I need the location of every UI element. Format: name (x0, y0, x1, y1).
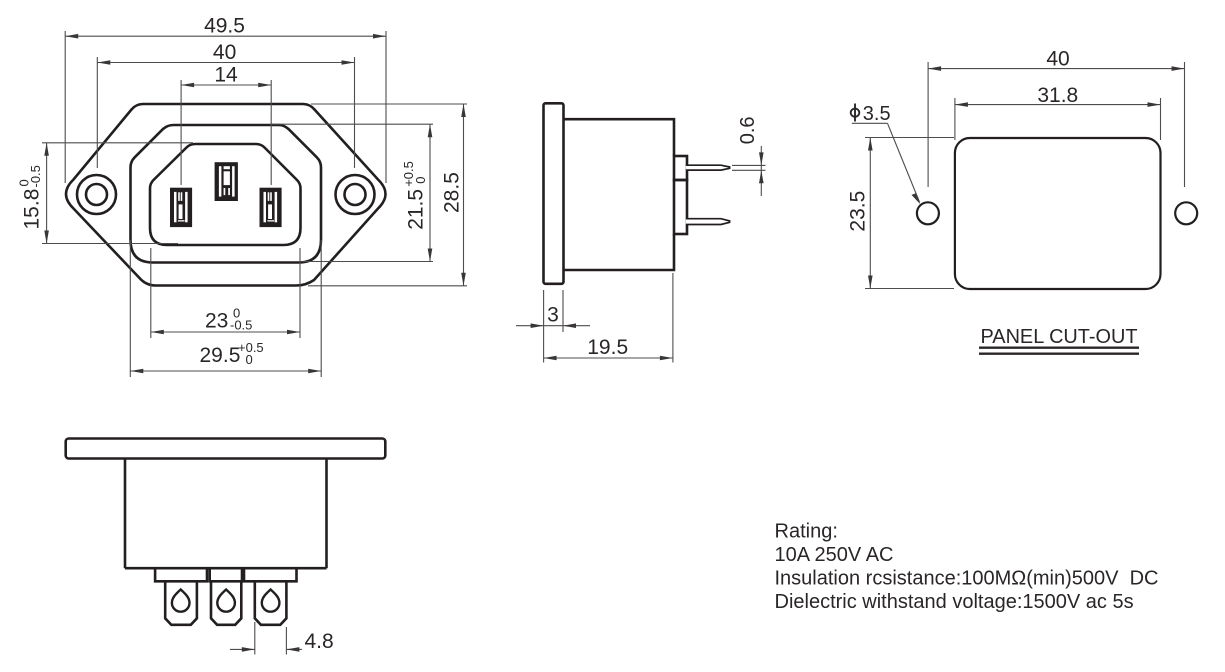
bottom pin left (165, 581, 197, 625)
dim 23 lines (150, 248, 152, 338)
arrows 23 (151, 330, 164, 335)
dim 21.5 lines (270, 123, 433, 125)
label 0.6 (737, 116, 759, 144)
svg-text:28.5: 28.5 (441, 172, 464, 213)
front socket opening outline (150, 144, 301, 245)
arrows 14 (181, 83, 194, 88)
svg-text:23: 23 (205, 310, 228, 333)
dim 28.5 lines (311, 103, 467, 105)
svg-text:Insulation rcsistance:100MΩ(mi: Insulation rcsistance:100MΩ(min)500V DC (775, 567, 1159, 589)
side pin bottom (686, 219, 730, 225)
svg-text:Rating:: Rating: (775, 520, 838, 542)
arrows 49.5 (65, 34, 78, 39)
svg-text:31.8: 31.8 (1037, 84, 1078, 107)
arrows 0.6 (759, 152, 764, 165)
dim 14 lines (180, 80, 182, 185)
mounting hole right inner (345, 184, 366, 205)
bottom pin middle (211, 581, 241, 625)
label phi3.5 (851, 104, 860, 122)
title underline double (979, 348, 1139, 354)
svg-text:0: 0 (246, 352, 253, 367)
arrows 29.5 (130, 369, 143, 374)
pin E (centre) (215, 162, 238, 201)
mounting hole left inner (86, 184, 107, 205)
dim 3 lines (543, 290, 545, 363)
bottom flange plate (66, 439, 386, 459)
teardrop hole left (172, 590, 190, 612)
arrow phi3.5 leader (912, 193, 921, 204)
svg-text:19.5: 19.5 (587, 336, 628, 359)
svg-text:23.5: 23.5 (847, 191, 870, 232)
arrows 31.8 (955, 102, 968, 107)
svg-text:3.5: 3.5 (863, 103, 891, 125)
svg-text:-0.5: -0.5 (230, 317, 252, 332)
side flange plate (544, 103, 564, 283)
label 23.5 (847, 191, 870, 232)
arrows 3 (531, 323, 544, 328)
label 28.5 (441, 172, 464, 213)
arrows 4.8 (242, 647, 255, 652)
side body (564, 119, 675, 270)
mounting hole left outer (77, 175, 116, 214)
front flange outline (66, 104, 386, 286)
mounting hole right outer (336, 175, 375, 214)
side pin top (686, 165, 730, 170)
pin L (left) (170, 188, 192, 227)
dim 49.5 lines (64, 31, 66, 183)
svg-text:40: 40 (1046, 48, 1069, 71)
cutout rounded rect (955, 138, 1161, 289)
svg-text:29.5: 29.5 (200, 344, 241, 367)
dim 40 (cutout) lines (927, 62, 929, 187)
bottom neck right (244, 568, 297, 581)
svg-text:49.5: 49.5 (204, 15, 245, 38)
bottom pin right (255, 581, 287, 625)
front boss outline (131, 125, 322, 263)
dim 40 lines (96, 57, 98, 168)
side view dimensions (516, 146, 766, 363)
bottom neck middle (210, 568, 242, 581)
svg-text:0: 0 (413, 177, 428, 184)
dim 29.5 lines (129, 240, 131, 377)
svg-text:PANEL CUT-OUT: PANEL CUT-OUT (981, 325, 1138, 348)
side step lower (674, 180, 687, 234)
svg-text:3: 3 (547, 304, 559, 327)
svg-text:4.8: 4.8 (305, 630, 334, 653)
arrows 28.5 (461, 104, 466, 117)
teardrop hole middle (217, 590, 235, 612)
side step upper (674, 156, 687, 180)
bottom body (125, 459, 327, 569)
dim 0.6 lines (732, 164, 766, 166)
arrows 40 (cutout) (928, 66, 941, 71)
svg-text:40: 40 (213, 41, 236, 64)
svg-text:15.8: 15.8 (20, 189, 43, 230)
svg-text:0.6: 0.6 (737, 116, 759, 144)
arrows 23.5 (868, 138, 873, 151)
bottom neck left (155, 568, 207, 581)
dim 31.8 lines (954, 98, 956, 140)
label 21.5 +0.5/0 (401, 161, 428, 230)
cutout hole left (917, 202, 939, 224)
dim 4.8 lines (254, 622, 256, 655)
dim 23.5 lines (865, 137, 954, 139)
cutout hole right (1175, 202, 1197, 224)
label 15.8 0/-0.5 (16, 165, 43, 229)
arrows 40 (97, 60, 110, 65)
teardrop hole right (262, 590, 280, 612)
arrows 15.8 (44, 143, 49, 156)
svg-text:21.5: 21.5 (405, 189, 428, 230)
arrows 21.5 (428, 124, 433, 137)
leader phi3.5 (888, 123, 920, 202)
dim 15.8 lines (42, 142, 193, 144)
pin N (right) (260, 188, 282, 227)
arrows 19.5 (544, 356, 557, 361)
svg-text:14: 14 (214, 64, 238, 87)
svg-text:10A 250V AC: 10A 250V AC (775, 544, 894, 566)
svg-text:Dielectric withstand voltage:1: Dielectric withstand voltage:1500V ac 5s (775, 591, 1134, 613)
dim 19.5 lines (672, 273, 674, 363)
svg-text:-0.5: -0.5 (28, 165, 43, 187)
